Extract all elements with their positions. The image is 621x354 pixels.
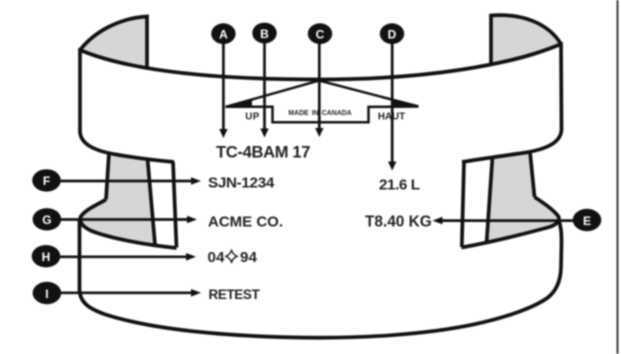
svg-text:94: 94 (240, 249, 257, 266)
svg-text:04: 04 (208, 249, 225, 266)
callout C line (318, 44, 321, 129)
callout G arrowhead (187, 216, 197, 224)
callout B circle (252, 23, 276, 44)
callout B arrowhead (260, 129, 268, 138)
left tab vertical V3 (173, 162, 177, 248)
top-left curl outline (80, 17, 147, 67)
left tab notch and bottom sweep curve (80, 200, 176, 249)
callout C circle (308, 23, 332, 44)
callout F circle (32, 169, 61, 191)
callout A line (222, 44, 225, 130)
callout E arrowhead (433, 217, 443, 225)
svg-text:RETEST: RETEST (209, 287, 261, 302)
right outer edge and right tab top edge (462, 42, 562, 162)
callout F arrowhead (191, 177, 201, 185)
top-right curl outline (491, 15, 561, 65)
callout H line (60, 255, 187, 258)
diamond symbol between 04 and 94 (226, 251, 237, 263)
callout D line (391, 44, 394, 163)
svg-text:SJN-1234: SJN-1234 (208, 175, 275, 192)
svg-text:A: A (219, 28, 228, 42)
left outer edge and left tab top edge (80, 48, 174, 162)
right tab vertical V3' (462, 162, 464, 247)
cylinder collar band: gray face of top-right curl (491, 15, 561, 65)
callout G circle (33, 208, 62, 230)
lower band outline: left edge, bottom arc, right edge (80, 219, 562, 338)
callout B line (263, 43, 266, 130)
svg-text:I: I (45, 287, 48, 301)
right tab notch and bottom sweep curve (462, 197, 559, 248)
cylinder collar band: gray face of top-left curl (80, 17, 147, 66)
callout F line (60, 180, 192, 183)
svg-text:H: H (42, 250, 51, 264)
svg-text:21.6 L: 21.6 L (379, 177, 420, 194)
svg-text:T8.40 KG: T8.40 KG (365, 214, 432, 231)
band top front rim arc (80, 44, 561, 80)
callout G line (60, 218, 188, 221)
right tab vertical V1' (530, 152, 535, 197)
cylinder collar band: gray face of left middle tab (80, 153, 155, 245)
right page border line (617, 0, 619, 354)
left dark wedge tip of marking (226, 100, 253, 107)
svg-text:G: G (42, 213, 51, 227)
orientation marking base with channel (226, 107, 419, 123)
callout C arrowhead (315, 128, 323, 137)
callout I line (60, 291, 192, 294)
callout A circle (211, 23, 235, 44)
right dark wedge tip of marking (392, 99, 419, 107)
callout I circle (33, 282, 62, 304)
svg-text:ACME CO.: ACME CO. (208, 214, 283, 231)
cylinder collar band: gray face of right middle tab (487, 152, 559, 243)
callout D arrowhead (388, 162, 396, 171)
svg-text:TC-4BAM 17: TC-4BAM 17 (216, 144, 310, 162)
left tab vertical V2 (148, 159, 156, 245)
orientation marking tent (roof lines) (226, 81, 419, 108)
svg-text:B: B (260, 27, 269, 41)
callout D circle (380, 23, 404, 44)
right tab vertical V2' (487, 156, 493, 243)
svg-text:UP: UP (245, 112, 259, 123)
svg-text:E: E (583, 214, 591, 228)
left tab vertical V1 (106, 153, 109, 200)
callout A arrowhead (219, 129, 227, 138)
svg-text:C: C (316, 28, 325, 42)
svg-text:F: F (43, 174, 50, 188)
callout E line (441, 219, 573, 222)
svg-text:D: D (388, 28, 397, 42)
callout I arrowhead (191, 289, 201, 297)
callout E circle (573, 209, 602, 231)
callout H circle (32, 245, 61, 267)
callout H arrowhead (186, 253, 196, 261)
